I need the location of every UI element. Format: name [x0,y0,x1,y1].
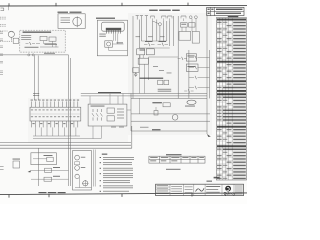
caption FRONT PANEL BOARD LAYOUT [39,192,66,193]
sheet size mark [207,181,213,182]
aux component group [133,68,139,77]
wire list table rows [216,18,246,177]
feeder wire label [44,52,55,55]
thermostat pin row [106,28,121,34]
contact CR3 [178,57,187,60]
ladder rail wire 5 [152,21,154,41]
wire long bus H [0,144,131,146]
wire rung to right column [148,56,178,58]
wire collector bus 1 [33,135,80,137]
wire lower bus F with label [131,129,207,131]
contact CR1 with label [144,41,155,46]
wire thermostat pins down [113,34,117,44]
relay box K5 [186,64,198,71]
supply terminal circle T4 [189,16,192,19]
wire thermostat bottom [109,47,128,50]
ladder rung wire at 47 [139,47,169,49]
wire trunk L1 down [33,56,35,101]
mid contact row [184,89,193,92]
thermostat wire labels [99,33,106,36]
right ladder component box 2 [192,32,199,44]
front panel inner right rail [94,150,96,187]
ladder rail wire 3 [140,20,142,42]
left edge wire stub labels group 1 [0,17,6,27]
front panel layout enclosure [73,151,92,190]
label compressor terminal [185,105,195,108]
wire bus drop to contactor 2 [109,94,111,105]
wire K2 down pair [140,55,143,58]
wire dashed leader from fan box [0,40,13,42]
ladder label dark dashes [140,78,164,79]
bottom arrow stub [28,170,31,172]
wire contactor drops [93,126,101,139]
notes heading [102,154,108,155]
label ELECTRONIC THERMOSTAT [96,18,115,19]
bottom relay enclosure box [31,153,57,165]
ladder rail wire 7 [163,21,165,41]
wire sensor to right [112,43,123,45]
connector bracket J2 [162,16,167,21]
title A/C CONTROL SCHEMATIC [149,10,180,11]
wire bus drop to contactor 4 [122,94,124,105]
right ladder verticals [182,19,196,32]
small cable table [149,156,205,163]
ladder rail wire 6 [159,26,161,41]
sheet top border line [0,4,247,7]
terminal strip TB1 terminal number rows [30,109,81,117]
ladder rung y41 [141,40,166,42]
starter overload relay OL1 [40,36,47,40]
fan junction box [13,38,19,43]
bottom border zone tick 3 [121,194,123,197]
mid ladder scattered labels [153,66,172,73]
indicator lamp DS1 [172,115,178,121]
wire lower bus D [131,113,210,115]
trunk wire number labels [33,92,39,95]
panel gauge with cross [82,180,89,187]
panel pushbutton PB3 [75,174,79,178]
ladder supply terminal T3 [145,16,148,20]
sheet corner bracket [1,8,4,11]
switch terminal text [61,16,71,19]
ladder rail wire 15 [147,57,149,80]
wire label near sensor [117,41,124,44]
terminal strip TB1 lower pins [32,121,78,127]
wire bus drop to contactor 1 [89,96,91,104]
wire bus drop to contactor 3 [117,96,119,104]
relay labels row [140,49,145,52]
ladder rail wire 1 [132,16,134,98]
right rung contact 4 [189,86,210,89]
wire mid drop x139 [138,98,140,114]
wire control bus A [81,93,207,95]
bottom border zone tick 4 [191,194,193,197]
compressor contactor K1 box [88,104,127,126]
svg-text:Quincy: Quincy [224,191,236,195]
ladder rail wire 13 [138,55,140,94]
wire J1 to pilot [153,21,159,24]
thermostat enclosure box [97,20,127,56]
ladder rail wire 11 [156,20,158,42]
feeder line connector plugs [28,54,35,56]
bottom left small box [13,161,20,168]
connector bracket J1 [151,16,155,21]
ladder rail wire 10 [177,16,179,98]
Quincy logo emblem [226,186,231,191]
terminal strip TB1 upper pins [32,101,78,107]
top border zone tick 4 [187,3,189,6]
corner tick drop [7,6,9,10]
connector bracket J4 [181,16,186,21]
title block frame [156,184,244,195]
wire trunk L2 down [37,56,39,101]
starter contact M [26,42,36,45]
ladder rail wire 14 [143,64,145,93]
right ladder rail [209,50,211,98]
thermostat module U1 [102,22,125,31]
top border zone tick 3 [121,3,123,6]
right ladder top boxes [181,23,196,27]
wire list table header label [228,16,239,17]
wire stub labels above bus [111,127,149,128]
bottom rung 1 with component [31,167,69,172]
certification note under cable table [166,169,181,170]
wire control bus B [81,95,207,97]
relay box K3 [146,49,154,55]
revision block table [207,7,244,15]
wire control bus C [131,97,207,99]
contactor K1 terminal marks [117,108,124,111]
compressor motor starter dashed enclosure [20,30,65,52]
pressure transducer ellipse [187,100,196,104]
right rung contact 3 [189,76,210,79]
contactor K1 labels [91,105,105,108]
wire list table frame [216,18,246,180]
ladder left rail long [130,94,132,132]
ladder supply terminal T2 [140,16,143,20]
terminal strip TB1 lower pin labels [32,122,73,125]
bottom left box label [13,158,21,161]
mid relay boxes row [158,80,169,85]
ladder rail wire 12 [166,21,168,41]
right rung contact 1 [189,56,210,59]
panel pushbutton PB1 label [81,156,86,159]
bus wire labels [98,92,121,93]
starter auxiliary contact block [49,37,56,41]
left edge wire stub labels group 2 [0,32,3,75]
wire dashed leader to fan [0,30,8,32]
supply terminal circle T5 [195,16,198,19]
wire feeder bus below starter [0,54,69,56]
title block left cell rows [156,185,170,194]
bottom border zone tick 1 [8,195,10,198]
bottom rung 2 with component [31,176,69,181]
wire list table text entries [214,19,246,180]
contactor K1 aux block [107,116,114,121]
bottom trunk wire [38,148,40,186]
relay box K2 [137,49,145,55]
wire TB1 drops to bus [35,127,76,136]
title block drawing number text [206,186,220,193]
sheet bottom border line [0,193,247,195]
title block center cell text [171,186,192,194]
thermostat sensor block [105,41,113,47]
relay box K4 [186,54,196,61]
mid text block [158,88,172,91]
terminal strip TB1 body [30,107,81,121]
pressure gauge switch S1 [73,16,82,27]
panel pushbutton PB1 [75,155,80,160]
bus junction to ladder [131,126,133,148]
high pressure switch enclosure box [58,14,85,29]
right ladder rail 2 [188,50,190,98]
ladder wire label group [136,35,165,38]
starter internal wires [25,41,59,48]
component row lower mid [152,102,170,107]
small cable table title [166,154,182,155]
pilot terminal circle [158,23,161,26]
title block address lines [235,186,243,195]
ladder supply terminal T1 [136,16,139,20]
wire collector bus 2 [33,138,101,140]
ladder rail wire 8 [169,21,171,46]
label HIGH PRESSURE CUT SWITCH [58,12,82,13]
wire right drop with arrow [207,15,211,137]
panel pushbutton PB2 label [81,166,86,169]
notes numbered list [100,157,101,158]
bottom relay internals [33,155,53,162]
top border zone tick 1 [8,3,10,6]
right ladder component box 1 [179,32,191,41]
panel switch block [75,162,80,165]
condenser fan motor M1 [8,31,14,40]
wire trunk left tall pair [69,55,71,186]
wire list END marker [214,177,220,179]
bottom left edge stub marks [0,166,4,170]
bottom border zone tick 2 [48,194,50,197]
right rung contact 2 [189,66,210,69]
wire lower mid vertical [154,107,158,115]
top border zone tick 2 [55,3,57,6]
contactor K1 pole contacts [92,109,103,121]
starter notes text [21,34,31,37]
ladder rail wire 2 [138,20,140,49]
starter wire labels [45,43,58,46]
ladder rail wire 9 [173,16,175,46]
connector bracket J3 [168,16,173,21]
title block approval scribble [196,188,205,191]
panel pushbutton PB2 [75,166,80,171]
wire long bus I [0,147,132,149]
ladder rail wire 4 [145,20,147,42]
contactor K1 coil block [107,108,114,113]
wire lower bus E [131,120,210,122]
label COMPRESSOR MOTOR STARTER [23,32,51,33]
wire long bus G [0,142,131,144]
timer box TD1 [138,58,148,64]
wire contactor to rail [127,109,131,111]
panel internal wire [75,176,91,187]
contact CR2 with label [158,41,169,46]
terminal strip TB1 upper pin labels [31,99,80,102]
